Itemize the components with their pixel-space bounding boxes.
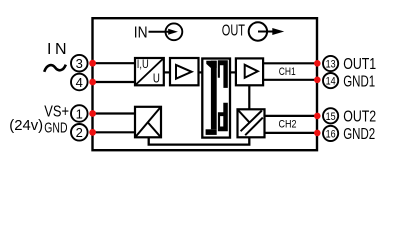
svg-text:CH1: CH1 [279, 66, 296, 78]
terminal 3 circle [71, 55, 88, 72]
isolated supply wire (U shape) [149, 137, 250, 144]
svg-text:4: 4 [76, 75, 83, 90]
I/U converter block [135, 58, 164, 85]
svg-text:U: U [153, 70, 160, 85]
svg-text:OUT1: OUT1 [343, 56, 376, 73]
red junction dot terminal 16 [314, 130, 321, 137]
terminal 14 circle [323, 73, 338, 88]
amplifier A1 block [170, 58, 199, 85]
wire A1 to transformer [199, 71, 203, 73]
transformer foot [206, 129, 217, 135]
terminal 16 circle [323, 126, 338, 141]
terminal 15 circle [323, 108, 338, 123]
red junction dot terminal 3 [89, 60, 96, 67]
svg-text:CH2: CH2 [279, 119, 297, 131]
header IN meter circle [166, 23, 183, 40]
header IN arrowhead [168, 29, 178, 35]
svg-text:VS+: VS+ [44, 103, 69, 120]
input AC tilde [44, 65, 66, 72]
wire terminal 1 to power converter [93, 112, 137, 114]
module outline box [93, 18, 318, 150]
wire A2 to terminal 13 [263, 62, 317, 64]
wire A2 to output driver [248, 85, 250, 109]
wire driver to terminal 15 [265, 115, 318, 117]
red junction dot terminal 4 [89, 79, 96, 86]
output driver block [238, 109, 265, 137]
svg-text:16: 16 [326, 128, 336, 140]
svg-text:GND2: GND2 [343, 126, 375, 143]
terminal 2 circle [71, 124, 88, 141]
svg-text:15: 15 [326, 111, 336, 123]
wire to terminal 14 [263, 79, 317, 81]
wire terminal 3 to I/U converter [93, 62, 137, 64]
svg-text:IN: IN [47, 41, 67, 58]
red junction dot terminal 2 [89, 129, 96, 136]
svg-text:1: 1 [76, 106, 83, 121]
transformer flag top [206, 61, 216, 68]
power converter block [135, 107, 161, 138]
svg-text:3: 3 [76, 56, 83, 71]
header OUT wire [258, 31, 275, 33]
red junction dot terminal 14 [314, 77, 321, 84]
wire terminal 4 to I/U converter [93, 81, 137, 83]
svg-text:(24v): (24v) [9, 117, 43, 134]
svg-text:2: 2 [76, 125, 83, 140]
svg-text:GND1: GND1 [343, 73, 375, 90]
header IN wire [149, 31, 169, 33]
svg-text:13: 13 [326, 59, 336, 71]
svg-text:14: 14 [326, 76, 336, 88]
isolation transformer T1 box [202, 59, 230, 138]
red junction dot terminal 13 [314, 60, 321, 67]
svg-text:OUT2: OUT2 [343, 109, 376, 126]
wire I/U to amplifier A1 [164, 71, 170, 73]
amplifier A2 block [236, 58, 263, 85]
terminal 13 circle [323, 56, 338, 71]
red junction dot terminal 1 [89, 110, 96, 117]
svg-text:I,U: I,U [137, 59, 149, 71]
wire transformer to amplifier A2 [230, 71, 236, 73]
transformer bottom winding [218, 103, 228, 132]
wire terminal 2 to power converter [93, 131, 137, 133]
terminal 4 circle [71, 74, 88, 91]
wire to terminal 16 [265, 132, 318, 134]
svg-text:OUT: OUT [222, 22, 246, 39]
header OUT meter circle [249, 22, 267, 40]
red junction dot terminal 15 [314, 113, 321, 120]
terminal 1 circle [71, 105, 88, 122]
header OUT arrowhead [272, 28, 284, 35]
transformer core bar [211, 61, 217, 130]
svg-text:IN: IN [134, 24, 148, 41]
transformer top winding [218, 60, 228, 88]
svg-text:GND: GND [44, 119, 67, 136]
